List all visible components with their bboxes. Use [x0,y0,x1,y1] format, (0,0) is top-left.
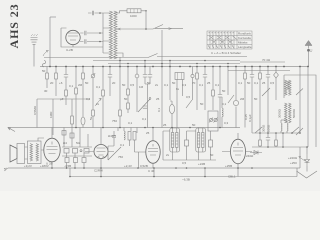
svg-text:0,1: 0,1 [164,83,169,87]
mid bus y127.5 [8,127,240,129]
wire drop x120 [119,57,121,128]
dial lamp assembly top right [305,41,313,67]
svg-text:750: 750 [118,155,123,159]
resistor [55,73,58,79]
svg-text:0,52B: 0,52B [140,164,148,168]
svg-text:70: 70 [192,81,196,85]
tube V2 [85,128,114,169]
wire drop x47 [46,67,48,89]
wire drop x252 [251,67,253,134]
svg-text:300Ω: 300Ω [262,124,266,132]
resistor [92,110,95,116]
title AHS 23 [7,3,21,48]
wire [141,11,153,29]
components between V1 and V2 [62,128,92,169]
capacitor [266,75,270,78]
tube V1 output [41,128,60,169]
capacitor [250,75,254,78]
capacitor [108,75,112,78]
resistor [119,110,122,116]
wire drop x103 [102,67,104,128]
svg-text:1000: 1000 [130,14,137,18]
wire drop x205 [204,67,206,111]
wire drop x260 [259,67,261,134]
svg-text:0,1: 0,1 [254,81,259,85]
wire drop x128 [127,67,129,99]
wire drop x66 [65,67,67,106]
svg-text:+240Ω: +240Ω [288,156,298,160]
verticals to bottom bus [70,168,238,177]
ground [297,171,318,178]
winding columns [285,80,288,95]
resistor [212,90,215,96]
right partial box [284,75,316,147]
hline y133 [252,132,300,134]
tube U1 (triode-hexode top) [61,28,103,47]
resistor [244,73,247,79]
diode down [305,160,310,163]
resistor [127,89,130,95]
IF transformer can 2 [196,128,206,161]
svg-text:20: 20 [112,81,116,85]
diode arrow 2 [299,156,305,161]
capacitor [143,75,152,78]
arrow at left end [8,128,15,132]
bus y63.5 [108,63,240,65]
svg-text:+9,2V: +9,2V [24,164,32,168]
svg-text:C + A + B Ω 4 Schalter: C + A + B Ω 4 Schalter [211,51,241,55]
svg-text:2x: 2x [155,83,159,87]
wire x163 [162,131,164,160]
svg-text:0,5: 0,5 [130,83,135,87]
svg-text:50: 50 [200,102,204,106]
svg-text:Ω4Ω5: Ω4Ω5 [108,134,116,138]
transformer taps [103,28,123,57]
svg-text:240Ω: 240Ω [246,154,254,158]
svg-text:Langwelle: Langwelle [238,45,252,49]
tube V3 [138,128,160,169]
svg-text:25: 25 [146,131,150,135]
svg-text:2M: 2M [240,97,245,101]
pot circle [91,74,95,78]
svg-text:+6: +6 [59,81,63,85]
wire drop x110 [109,67,111,97]
svg-text:+25B: +25B [225,164,232,168]
hline y99 [37,98,90,100]
svg-text:6x: 6x [176,87,180,91]
wire drop x56 [55,67,57,97]
resistor [259,73,262,79]
svg-text:0,1: 0,1 [120,143,125,147]
diode arrow [250,151,262,155]
capacitor [203,75,207,78]
labels row mid [33,58,296,132]
svg-text:2x: 2x [166,153,170,157]
svg-text:0,5: 0,5 [182,161,187,165]
svg-text:50: 50 [222,89,226,93]
capacitor [218,95,222,98]
svg-text:25: 25 [262,81,266,85]
svg-text:1MΩ: 1MΩ [49,111,53,118]
svg-text:0,3: 0,3 [224,121,229,125]
svg-text:0,5: 0,5 [270,81,275,85]
svg-text:0,5: 0,5 [186,95,191,99]
svg-text:U-2B: U-2B [66,48,73,52]
svg-text:50: 50 [85,81,89,85]
svg-text:3000Ω: 3000Ω [278,108,282,118]
svg-text:0,1µF: 0,1µF [248,114,252,122]
small parts below y133 [259,133,261,147]
antenna trimmer arrow [43,51,49,57]
electrolytic oval [169,104,174,113]
svg-text:25: 25 [163,123,167,127]
wire drop x213 [212,67,214,111]
svg-text:1M: 1M [139,85,144,89]
svg-text:0,1: 0,1 [238,81,243,85]
wire drop x137 [136,67,138,113]
switch diagonal right [296,89,303,136]
output transformer [25,138,45,164]
svg-text:50: 50 [254,97,258,101]
switch diagonal [186,100,192,108]
hline y160 [163,159,216,161]
capacitor C2 [80,39,103,43]
svg-text:+24B: +24B [198,162,205,166]
svg-text:0,3: 0,3 [182,83,187,87]
switch diagonal [138,99,150,112]
svg-text:0,1: 0,1 [215,83,220,87]
resistor [65,90,68,96]
svg-text:70 4Ω: 70 4Ω [262,58,271,62]
arrow into transformer [117,28,146,30]
resistor [102,90,105,96]
svg-text:0,25: 0,25 [244,114,248,120]
tube V4 [222,133,252,168]
svg-text:50: 50 [147,81,151,85]
svg-text:5x: 5x [89,116,93,120]
main bus y66 [40,66,308,68]
svg-text:2M: 2M [78,83,83,87]
wire drop x220 [219,67,221,128]
svg-text:AHS 23: AHS 23 [7,3,21,48]
cap x145 [143,106,147,108]
svg-text:0,1: 0,1 [69,84,74,88]
svg-text:50: 50 [42,69,46,73]
switch position table [207,31,252,55]
IF transformer can 1 [170,128,180,161]
svg-text:0,5MΩ: 0,5MΩ [33,105,37,115]
switch on bus y57 [148,54,158,58]
arrow diagonal [95,98,101,106]
wire drop x83 [82,67,84,128]
more groups appended below [33,51,316,148]
wire x308 down [307,67,309,148]
switch diagonals on y133 [255,127,299,133]
bottom labels [24,14,298,182]
svg-text:2x: 2x [96,102,100,106]
svg-text:50: 50 [124,97,128,101]
resistor [46,73,49,79]
svg-text:5000Ω: 5000Ω [292,108,296,118]
wire drop x76 [75,67,77,128]
svg-text:20: 20 [50,81,54,85]
svg-text:Rundfunk: Rundfunk [238,32,251,36]
resistor [75,88,78,94]
svg-text:µF: µF [60,97,64,101]
capacitor C (tube to line) [80,31,103,35]
wire transformer top to resistor [103,11,127,13]
antenna [31,34,38,66]
svg-text:50: 50 [247,81,251,85]
wire drop x170 [169,61,171,101]
svg-text:25: 25 [207,81,211,85]
main bus y57 [44,57,247,58]
svg-text:C2RW: C2RW [94,169,103,173]
wire drop x197 [196,67,198,111]
svg-text:+250: +250 [290,161,297,165]
resistor right of can2 [209,140,213,147]
pot box [208,111,218,131]
svg-text:U 2B: U 2B [46,162,53,166]
svg-text:50: 50 [210,153,214,157]
small resistor between cans [185,140,189,146]
svg-text:C 4F: C 4F [148,169,155,173]
coil at bus start [42,61,45,67]
box resistor x175-184 [175,73,184,80]
svg-text:+2,4V: +2,4V [124,164,132,168]
svg-text:0,1: 0,1 [157,107,161,112]
resistor [82,73,85,79]
svg-text:0,1: 0,1 [222,102,227,106]
wire [50,16,56,18]
arrow at left end of bottom bus [4,168,8,171]
scattered micro labels [44,87,258,165]
capacitor C3 top [88,11,103,16]
wire drop x162 [161,57,163,128]
svg-text:0,1: 0,1 [96,85,101,89]
bottom bus y168 [8,167,300,169]
svg-text:50: 50 [172,81,176,85]
wire x72 with resistor [71,99,73,128]
arrow wire right [155,28,183,30]
svg-text:100Ω: 100Ω [267,124,271,132]
junction [145,10,147,12]
svg-text:Kurzwelle: Kurzwelle [238,36,251,40]
wire drop x236 [235,67,237,128]
switch diagonal [262,88,270,96]
svg-text:0,1: 0,1 [199,83,204,87]
hline y147 [252,146,308,148]
svg-text:3000Ω: 3000Ω [286,80,290,90]
capacitor [64,75,68,78]
svg-text:0,1: 0,1 [142,117,147,121]
svg-text:30: 30 [44,89,48,93]
resistor R1 [127,9,141,13]
wire node [102,13,104,53]
svg-text:0,1: 0,1 [128,121,133,125]
svg-text:50: 50 [192,123,196,127]
svg-text:750: 750 [112,119,117,123]
svg-text:~6,3B: ~6,3B [182,178,190,182]
transformer T1 primary [109,11,112,59]
wire x37 [36,99,38,128]
wire drop x268 [267,67,269,134]
bus y70.5 right [228,70,290,72]
svg-text:0,2: 0,2 [86,97,91,101]
switch arm [153,25,163,30]
coil x222 [222,97,223,128]
bus y62 right [240,61,285,63]
diamond x276 [275,67,277,101]
wire drop x93 [92,67,94,128]
svg-text:CBL1: CBL1 [228,175,236,179]
wire down [161,30,163,57]
svg-text:50: 50 [122,83,126,87]
bottom bus y176.5 [70,147,300,177]
bus y60.5 [93,60,240,62]
wire x300 [299,67,301,134]
wire drop x145+150 double cap [145,61,150,128]
svg-text:-4,5B: -4,5B [64,164,71,168]
circle x192.5 [191,74,194,77]
wire drop x245 [244,67,246,128]
wire x53 [52,99,54,135]
svg-text:25: 25 [156,97,160,101]
components between V2 and V3 [108,128,138,169]
switch diagonal [228,95,234,103]
transformer T1 secondary [114,11,117,59]
wire [49,17,51,66]
svg-text:Ω4: Ω4 [63,141,67,145]
coils above [281,120,288,133]
vertical to ground [306,147,308,172]
speaker [10,144,25,164]
hline y131 [163,130,196,132]
svg-text:Mittelw.: Mittelw. [238,41,248,45]
comp x128 [127,103,130,109]
resistor [196,73,199,79]
oval resistor [81,117,85,125]
